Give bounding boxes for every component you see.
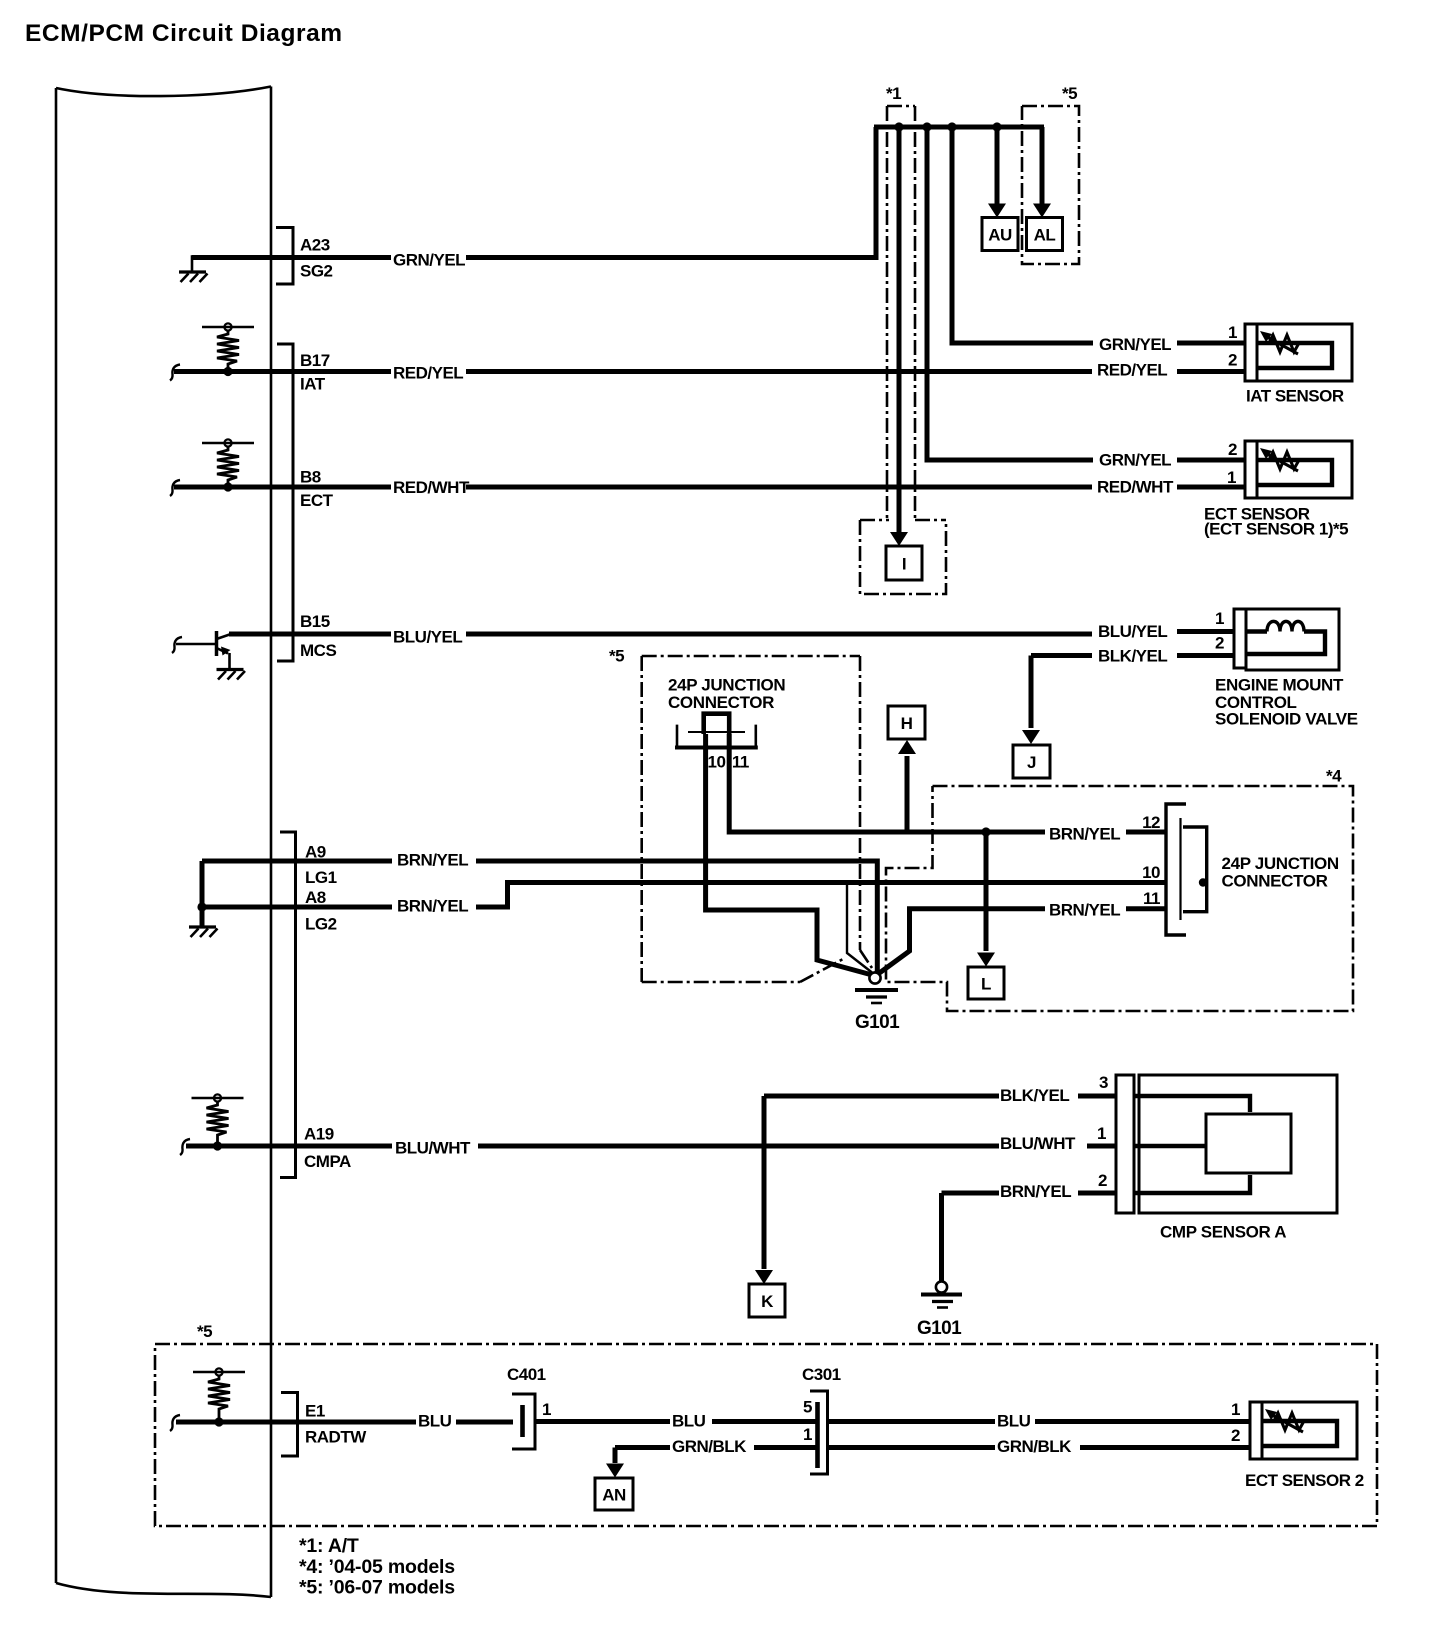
svg-text:G101: G101 bbox=[855, 1012, 900, 1033]
svg-text:GRN/BLK: GRN/BLK bbox=[672, 1437, 747, 1456]
svg-text:2: 2 bbox=[1215, 634, 1224, 653]
svg-text:LG2: LG2 bbox=[305, 915, 337, 934]
svg-text:2: 2 bbox=[1228, 351, 1237, 370]
svg-text:BLU/WHT: BLU/WHT bbox=[395, 1139, 471, 1158]
svg-text:E1: E1 bbox=[305, 1402, 325, 1421]
svg-text:B15: B15 bbox=[300, 612, 330, 631]
svg-text:1: 1 bbox=[542, 1400, 551, 1419]
svg-text:B8: B8 bbox=[300, 468, 321, 487]
svg-text:BLU: BLU bbox=[418, 1412, 452, 1431]
svg-text:BLK/YEL: BLK/YEL bbox=[1000, 1086, 1069, 1105]
svg-text:1: 1 bbox=[1215, 609, 1224, 628]
svg-text:RED/YEL: RED/YEL bbox=[1097, 361, 1167, 380]
svg-text:ECM/PCM Circuit Diagram: ECM/PCM Circuit Diagram bbox=[25, 20, 343, 47]
svg-text:I: I bbox=[902, 554, 906, 573]
svg-text:RADTW: RADTW bbox=[305, 1428, 367, 1447]
svg-text:J: J bbox=[1027, 753, 1036, 772]
svg-text:RED/WHT: RED/WHT bbox=[1097, 478, 1174, 497]
svg-text:BLK/YEL: BLK/YEL bbox=[1098, 647, 1167, 666]
svg-text:IAT: IAT bbox=[300, 375, 326, 394]
svg-text:BLU/YEL: BLU/YEL bbox=[393, 628, 462, 647]
svg-text:*4: *4 bbox=[1326, 767, 1342, 786]
svg-text:GRN/YEL: GRN/YEL bbox=[1099, 335, 1171, 354]
svg-text:RED/YEL: RED/YEL bbox=[393, 364, 463, 383]
svg-text:IAT SENSOR: IAT SENSOR bbox=[1246, 387, 1344, 406]
svg-text:2: 2 bbox=[1098, 1171, 1107, 1190]
svg-text:11: 11 bbox=[732, 753, 749, 772]
svg-text:*5: ’06-07 models: *5: ’06-07 models bbox=[299, 1577, 455, 1599]
svg-text:BRN/YEL: BRN/YEL bbox=[1049, 901, 1120, 920]
svg-text:5: 5 bbox=[803, 1398, 812, 1417]
svg-text:BLU/YEL: BLU/YEL bbox=[1098, 622, 1167, 641]
svg-text:BRN/YEL: BRN/YEL bbox=[1049, 825, 1120, 844]
svg-text:*1: A/T: *1: A/T bbox=[299, 1535, 359, 1557]
svg-text:MCS: MCS bbox=[300, 641, 336, 660]
svg-text:*1: *1 bbox=[886, 84, 901, 103]
svg-text:AL: AL bbox=[1034, 225, 1056, 244]
svg-text:12: 12 bbox=[1142, 813, 1160, 832]
svg-text:H: H bbox=[901, 714, 913, 733]
svg-text:ECT: ECT bbox=[300, 491, 334, 510]
svg-text:A8: A8 bbox=[305, 888, 326, 907]
svg-text:*5: *5 bbox=[609, 647, 624, 666]
svg-text:1: 1 bbox=[803, 1425, 812, 1444]
svg-text:BLU: BLU bbox=[672, 1412, 706, 1431]
svg-text:BLU: BLU bbox=[997, 1412, 1031, 1431]
svg-text:C401: C401 bbox=[507, 1365, 546, 1384]
svg-text:K: K bbox=[761, 1292, 774, 1311]
svg-text:*5: *5 bbox=[197, 1322, 212, 1341]
svg-text:BRN/YEL: BRN/YEL bbox=[397, 897, 468, 916]
svg-text:11: 11 bbox=[1143, 889, 1160, 908]
svg-text:*4: ’04-05 models: *4: ’04-05 models bbox=[299, 1556, 455, 1578]
svg-text:CMP SENSOR A: CMP SENSOR A bbox=[1160, 1223, 1286, 1242]
svg-text:GRN/YEL: GRN/YEL bbox=[1099, 451, 1171, 470]
svg-text:2: 2 bbox=[1231, 1426, 1240, 1445]
svg-text:24P JUNCTION: 24P JUNCTION bbox=[668, 676, 785, 695]
svg-text:AU: AU bbox=[988, 225, 1012, 244]
svg-text:3: 3 bbox=[1099, 1073, 1108, 1092]
svg-text:RED/WHT: RED/WHT bbox=[393, 478, 470, 497]
svg-text:*5: *5 bbox=[1062, 84, 1077, 103]
svg-text:GRN/YEL: GRN/YEL bbox=[393, 250, 465, 269]
svg-text:CMPA: CMPA bbox=[304, 1152, 351, 1171]
svg-text:AN: AN bbox=[602, 1485, 626, 1504]
svg-text:24P JUNCTION: 24P JUNCTION bbox=[1222, 854, 1339, 873]
svg-text:1: 1 bbox=[1227, 468, 1236, 487]
svg-text:LG1: LG1 bbox=[305, 868, 337, 887]
svg-text:C301: C301 bbox=[802, 1365, 841, 1384]
svg-text:1: 1 bbox=[1228, 323, 1237, 342]
svg-text:L: L bbox=[981, 974, 991, 993]
svg-text:B17: B17 bbox=[300, 351, 330, 370]
svg-text:SOLENOID VALVE: SOLENOID VALVE bbox=[1215, 710, 1358, 729]
svg-text:10: 10 bbox=[708, 753, 726, 772]
svg-text:A19: A19 bbox=[304, 1125, 334, 1144]
svg-text:GRN/BLK: GRN/BLK bbox=[997, 1437, 1072, 1456]
svg-text:BRN/YEL: BRN/YEL bbox=[397, 851, 468, 870]
svg-text:2: 2 bbox=[1228, 440, 1237, 459]
svg-text:G101: G101 bbox=[917, 1318, 962, 1339]
svg-text:BRN/YEL: BRN/YEL bbox=[1000, 1182, 1071, 1201]
svg-text:10: 10 bbox=[1142, 863, 1160, 882]
svg-text:A23: A23 bbox=[300, 236, 330, 255]
svg-text:ENGINE MOUNT: ENGINE MOUNT bbox=[1215, 676, 1344, 695]
svg-text:1: 1 bbox=[1231, 1400, 1240, 1419]
svg-text:(ECT SENSOR 1)*5: (ECT SENSOR 1)*5 bbox=[1204, 520, 1348, 539]
svg-text:CONNECTOR: CONNECTOR bbox=[668, 693, 774, 712]
svg-text:BLU/WHT: BLU/WHT bbox=[1000, 1134, 1076, 1153]
svg-text:CONNECTOR: CONNECTOR bbox=[1222, 872, 1328, 891]
svg-text:ECT SENSOR 2: ECT SENSOR 2 bbox=[1245, 1471, 1364, 1490]
svg-text:1: 1 bbox=[1097, 1124, 1106, 1143]
svg-text:SG2: SG2 bbox=[300, 262, 333, 281]
